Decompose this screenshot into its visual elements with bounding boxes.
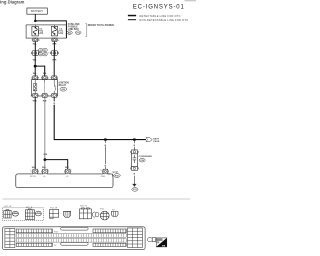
svg-text:32: 32 [40, 32, 42, 34]
page marker hatched square [156, 238, 167, 248]
wire W/B label below relay [33, 101, 38, 103]
connector view C face [49, 210, 58, 219]
svg-text:F101: F101 [115, 175, 119, 177]
wire B label on ECM terminal 4 drop [105, 166, 107, 168]
svg-text:10: 10 [100, 170, 102, 172]
svg-text:F2: F2 [44, 54, 46, 56]
wire B label below condenser [134, 174, 136, 176]
wire R/B label above ECM terminal 3 [65, 167, 69, 169]
node battery junction [34, 20, 37, 23]
wire condenser to ground arrow [133, 176, 135, 184]
node junction J1 [104, 138, 106, 140]
svg-text:REFER TO PG-POWER.: REFER TO PG-POWER. [88, 24, 115, 27]
svg-text:F12 , W: F12 , W [50, 207, 57, 209]
wire branch to fuse 2 [35, 21, 66, 25]
svg-text:43: 43 [57, 40, 59, 42]
fuse box terminal 2 [51, 38, 57, 41]
wire connector right down to relay [53, 55, 55, 76]
svg-text:2: 2 [31, 78, 32, 80]
svg-text:1: 1 [48, 78, 49, 80]
relay coil branch to terminal 2 [44, 80, 46, 94]
connector view E face [80, 208, 92, 219]
svg-text:ECCS: ECCS [30, 176, 36, 178]
svg-text:E22: E22 [14, 212, 17, 214]
connector ref oval F101 [112, 174, 120, 178]
ground arrow down [132, 184, 136, 187]
wire stub to fuse F1 [34, 25, 36, 27]
svg-text:CONDENSER: CONDENSER [139, 156, 153, 158]
wire B label below relay switch [53, 103, 55, 105]
ECM harness connector right grid [128, 228, 143, 248]
pin name GND [101, 176, 106, 178]
fuse box terminal 1 [32, 38, 38, 41]
svg-text:R/B: R/B [44, 154, 48, 156]
inline connector left [31, 51, 39, 56]
svg-text:FUSE AND: FUSE AND [68, 23, 80, 26]
svg-text:E1: E1 [40, 50, 42, 52]
wire W/L label above relay terminal 2 [43, 73, 48, 75]
svg-text:E22 , W: E22 , W [4, 206, 11, 208]
separator line [3, 198, 191, 200]
svg-text:E2: E2 [40, 54, 42, 56]
label IGNITION RELAY [59, 82, 70, 87]
wire branch junction B to ECM terminal 3 [45, 160, 68, 170]
svg-text:R/B: R/B [65, 167, 69, 169]
relay U1 ignition relay box [31, 80, 57, 96]
svg-text:E13: E13 [133, 189, 136, 191]
ECM terminal 3 [65, 169, 71, 174]
dashed link between inline connectors [47, 52, 51, 54]
wire W/L label above relay [33, 73, 38, 75]
svg-text:E22: E22 [68, 32, 71, 34]
page heading fragment [0, 0, 25, 4]
relay bottom terminal 3 [51, 94, 57, 98]
connector id oval F102 [43, 48, 47, 52]
wire W/B label above ECM terminal 1 [32, 167, 37, 169]
connector view H face [111, 211, 118, 216]
svg-text:EC-IGNSYS-01: EC-IGNSYS-01 [133, 4, 185, 10]
svg-text:R/B: R/B [42, 167, 46, 169]
svg-text:1: 1 [71, 170, 72, 172]
wire relay T1 to ECM [34, 97, 36, 169]
node junction J2 [133, 138, 135, 140]
connector id oval E106 [39, 48, 43, 52]
svg-text:F1: F1 [44, 50, 46, 52]
wire fuse2 to connector [53, 42, 55, 51]
svg-text:5: 5 [31, 96, 32, 98]
ECM terminal 4 [102, 169, 108, 174]
pin name ECCS [30, 176, 36, 178]
ground ref oval [132, 188, 138, 192]
legend non-detectable line [128, 18, 188, 22]
wire stub to fuse F2 [54, 25, 56, 27]
label 15A [59, 28, 63, 31]
connector view H label [112, 210, 115, 212]
bracket for refer note [85, 24, 86, 37]
relay top terminal 1 [32, 76, 38, 80]
header artifact top right [185, 0, 197, 1]
inline connector right [51, 51, 59, 56]
capacitor C1 condenser body [131, 154, 137, 167]
wire junction A down to relay [34, 66, 36, 76]
ECM harness pin row 4 [16, 243, 126, 247]
svg-text:PAGE: PAGE [153, 140, 160, 143]
connector view E25 face [25, 209, 34, 220]
relay switch contact [54, 80, 56, 94]
connector view oval B [35, 211, 41, 216]
ECM harness pin row 3 [16, 239, 126, 242]
wire fuse1 to connector [34, 42, 36, 51]
wire branch junction A to relay coil [35, 66, 45, 76]
connector view oval A [12, 211, 18, 216]
ECM harness pin row 1 [16, 229, 126, 233]
svg-text:: DETECTABLE LINE FOR DTC: : DETECTABLE LINE FOR DTC [137, 14, 180, 18]
svg-text:3: 3 [57, 78, 58, 80]
wire W/R label below connector [52, 60, 57, 62]
wire W/L label below connector [33, 60, 38, 62]
wire connector left down [34, 55, 36, 64]
pin name IGN [43, 176, 46, 178]
relay bottom terminal 2 [42, 94, 48, 98]
svg-text:MA: MA [162, 244, 166, 247]
connector view E label [80, 205, 87, 207]
wire J1 down to ECM terminal 4 [105, 141, 107, 169]
connector legend dashed group box [3, 208, 44, 221]
connector ref oval F12 [75, 31, 81, 35]
label 10A [39, 28, 43, 31]
fuse F2 15A [51, 26, 57, 36]
svg-text:IGNITION: IGNITION [59, 82, 70, 84]
svg-text:F12: F12 [77, 32, 80, 34]
node junction A [34, 65, 37, 68]
connector view G label [100, 208, 103, 210]
svg-text:E25: E25 [37, 212, 40, 214]
connector view G face round [100, 211, 109, 220]
small connector view I [147, 237, 155, 241]
svg-text:W/B: W/B [32, 167, 37, 169]
wire battery feed [34, 14, 36, 21]
svg-text:: NON-DETECTABLE LINE FOR DTC: : NON-DETECTABLE LINE FOR DTC [137, 18, 188, 22]
legend detectable line [128, 14, 181, 18]
connector view E22 label [4, 206, 11, 208]
condenser top terminal [130, 150, 138, 154]
svg-text:4: 4 [30, 170, 31, 172]
wire R/B label below relay [43, 101, 47, 103]
title EC-IGNSYS-01 [133, 4, 185, 10]
fuse F1 10A [32, 26, 38, 36]
ECM harness connector left grid [5, 228, 15, 247]
wire W/R label [52, 43, 57, 45]
relay coil [33, 80, 36, 94]
ECM harness pin row 2 [16, 234, 126, 237]
connector id oval lower left [39, 53, 43, 57]
label CONDENSER [139, 156, 153, 158]
svg-text:F24: F24 [100, 208, 103, 210]
fuse and fusible link box [26, 25, 66, 38]
wire R/B label above junction B [44, 154, 48, 156]
wire relay T2 down [44, 97, 46, 159]
connector id oval lower right [43, 53, 47, 57]
connector view C label [50, 207, 57, 209]
node junction B [44, 158, 47, 161]
fuse F2 number box [59, 31, 63, 34]
svg-text:7: 7 [57, 96, 58, 98]
svg-text:E25: E25 [62, 89, 65, 91]
battery [27, 8, 47, 14]
svg-text:32: 32 [38, 40, 40, 42]
pin number marks [30, 40, 102, 172]
ECM terminal 2 [42, 169, 48, 174]
relay top terminal 3 [51, 76, 57, 80]
svg-text:E25 , B: E25 , B [80, 205, 87, 207]
relay bottom terminal 1 [32, 94, 38, 98]
wire junction B down to ECM terminal 2 [44, 160, 46, 170]
svg-text:9: 9 [48, 170, 49, 172]
svg-text:GND: GND [101, 176, 106, 178]
label ECM [113, 172, 118, 174]
pin name IGN2 [66, 176, 69, 178]
connector view F face [92, 212, 99, 217]
connector ref oval E22 [67, 31, 73, 35]
wire B label on condenser drop [134, 145, 136, 147]
connector ref oval F24 [139, 158, 145, 162]
svg-text:F101: F101 [54, 231, 58, 233]
condenser bottom terminal [130, 166, 138, 170]
connector view D face [64, 211, 71, 217]
note REFER TO PG-POWER [88, 24, 115, 27]
wire W/L label [33, 43, 38, 45]
svg-text:RELAY: RELAY [59, 84, 67, 87]
svg-text:ring Diagram: ring Diagram [0, 0, 25, 4]
svg-text:6: 6 [48, 96, 49, 98]
connector view E25 label [26, 207, 33, 209]
ECM box [16, 174, 113, 188]
svg-text:BATTERY: BATTERY [31, 9, 43, 13]
arrow to next page [146, 138, 160, 144]
ECM harness top slot [61, 227, 88, 230]
relay top terminal 2 [42, 76, 48, 80]
wire J2 down to condenser [133, 141, 135, 150]
connector ref oval E25 [60, 87, 67, 91]
ECM terminal 1 [32, 169, 38, 174]
connector view E22 face [4, 210, 11, 218]
wire R/B label above ECM terminal 2 [42, 167, 46, 169]
fuse F1 number box [39, 31, 43, 34]
wire relay T3 to main horizontal [54, 97, 146, 139]
ECM harness connector outline [3, 227, 146, 250]
svg-text:E25 , B: E25 , B [26, 207, 33, 209]
ECM harness bottom slot [61, 242, 88, 245]
svg-text:33: 33 [60, 32, 62, 34]
label FUSE AND FUSIBLE LINK BOX [68, 23, 80, 31]
